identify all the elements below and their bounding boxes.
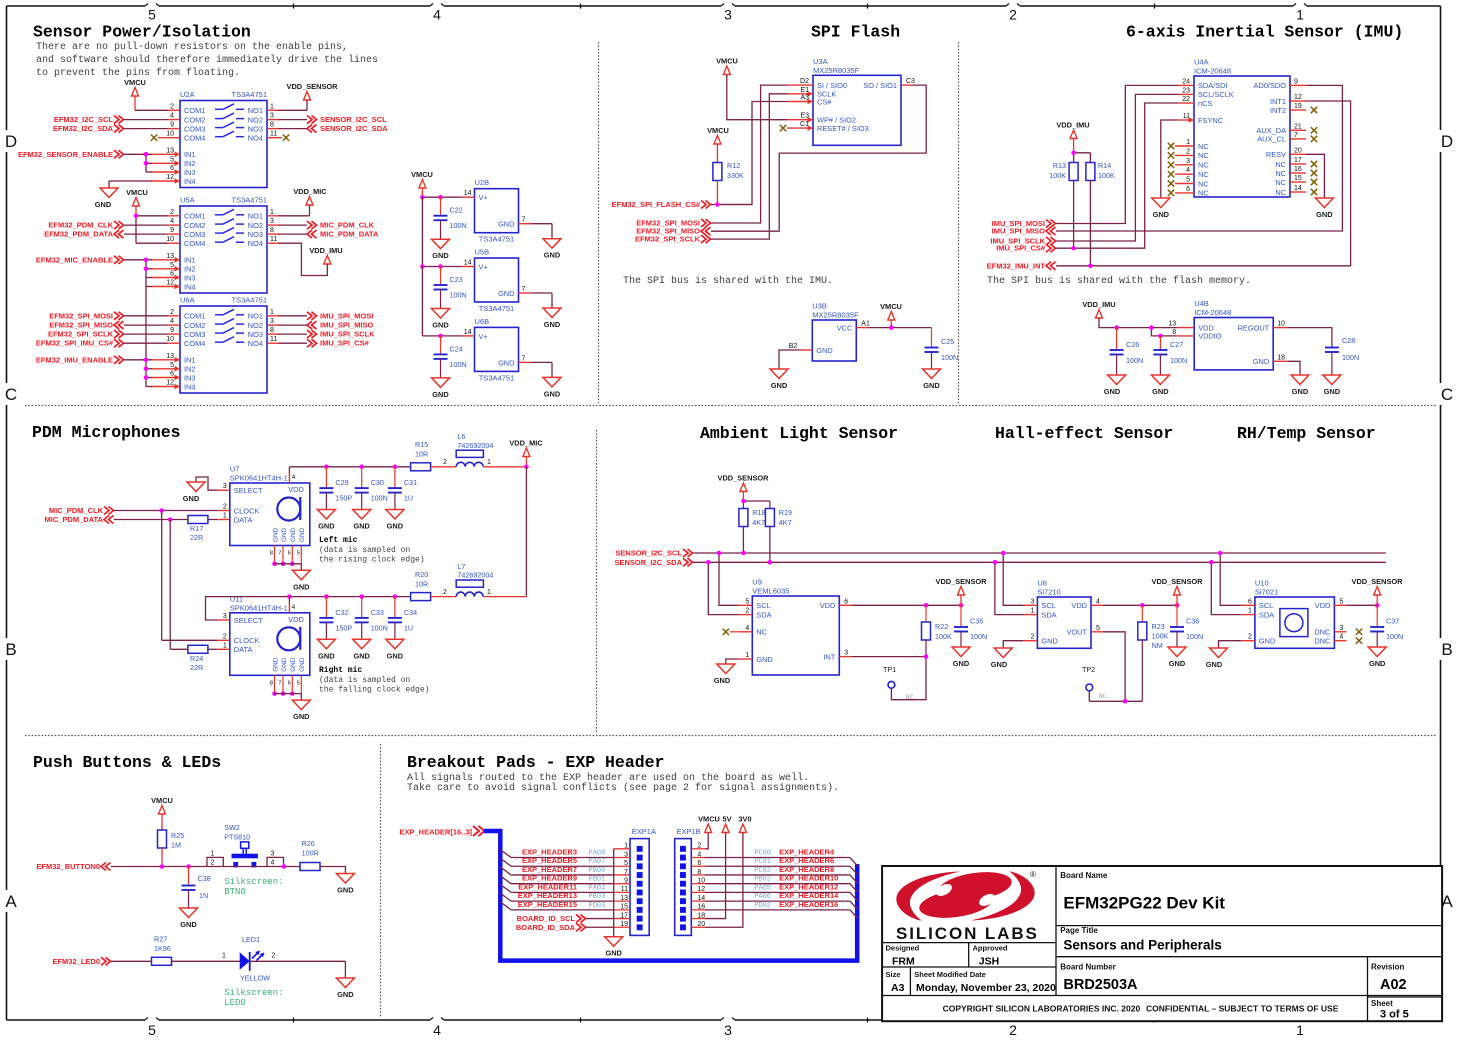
svg-text:GND: GND bbox=[544, 320, 561, 329]
ground (C23) bbox=[432, 309, 450, 330]
svg-text:VEML6035: VEML6035 bbox=[752, 587, 789, 596]
capacitor C32 150P bbox=[319, 597, 352, 640]
svg-text:GND: GND bbox=[1153, 210, 1170, 219]
wire EFM32_IMU_ENABLE to IN pins + U5A IN4 rail bbox=[124, 287, 152, 387]
svg-text:24: 24 bbox=[1182, 78, 1190, 85]
svg-text:TS3A4751: TS3A4751 bbox=[479, 304, 514, 313]
svg-text:Breakout Pads - EXP Header: Breakout Pads - EXP Header bbox=[407, 753, 664, 772]
svg-text:C27: C27 bbox=[1170, 340, 1183, 349]
junction VDD_MIC bbox=[524, 465, 529, 470]
svg-text:VMCU: VMCU bbox=[716, 57, 738, 66]
svg-text:CLOCK: CLOCK bbox=[234, 636, 260, 645]
header EXP1A bbox=[614, 827, 656, 935]
wire U6A NO3 bbox=[279, 333, 308, 335]
flash U3A MX25R8035F box bbox=[813, 57, 901, 146]
capacitor C37 100N bbox=[1370, 605, 1403, 647]
svg-text:6: 6 bbox=[288, 551, 291, 557]
svg-text:(data is sampled on: (data is sampled on bbox=[319, 676, 410, 685]
svg-text:1: 1 bbox=[487, 589, 491, 596]
svg-text:9: 9 bbox=[170, 227, 174, 234]
svg-text:MIC_PDM_DATA: MIC_PDM_DATA bbox=[320, 230, 379, 239]
wire U8 GND bbox=[1003, 641, 1023, 648]
junction C26 tap bbox=[1114, 325, 1119, 330]
ground (R26) bbox=[336, 874, 354, 895]
svg-text:the falling clock edge): the falling clock edge) bbox=[319, 686, 429, 695]
wire U8 VOUT to TP2 bbox=[1089, 632, 1142, 702]
svg-text:8: 8 bbox=[270, 680, 273, 686]
node EXP_HEADER9 bbox=[500, 874, 613, 884]
svg-text:7: 7 bbox=[1294, 132, 1298, 139]
svg-text:100N: 100N bbox=[1126, 356, 1143, 365]
svg-text:VMCU: VMCU bbox=[880, 302, 902, 311]
power VDD_IMU (R13 R14) bbox=[1056, 121, 1090, 163]
svg-text:COM1: COM1 bbox=[184, 106, 205, 115]
svg-text:2: 2 bbox=[1248, 634, 1252, 641]
svg-text:IMU_SPI_MOSI: IMU_SPI_MOSI bbox=[320, 311, 373, 320]
svg-text:IMU_SPI_CS#: IMU_SPI_CS# bbox=[996, 244, 1046, 253]
svg-text:3: 3 bbox=[270, 113, 274, 120]
wire MIC_PDM_DATA to R17 bbox=[114, 519, 187, 521]
svg-text:100N: 100N bbox=[1170, 356, 1187, 365]
title Ambient Light Sensor bbox=[700, 424, 898, 443]
svg-text:REGOUT: REGOUT bbox=[1238, 323, 1270, 332]
power VDD_SENSOR (U9) bbox=[936, 577, 988, 605]
note Silkscreen LED0 bbox=[224, 988, 283, 1008]
svg-text:VDD_SENSOR: VDD_SENSOR bbox=[1152, 577, 1204, 586]
svg-text:GND: GND bbox=[95, 200, 112, 209]
node EXP_HEADER13 bbox=[500, 891, 613, 901]
svg-text:PB02: PB02 bbox=[754, 876, 771, 884]
no-connect U2A COM4 bbox=[151, 135, 168, 141]
svg-text:14: 14 bbox=[1294, 185, 1302, 192]
wire SDA drop to U9 bbox=[708, 562, 738, 614]
svg-text:R19: R19 bbox=[779, 508, 792, 517]
svg-text:COM4: COM4 bbox=[184, 239, 205, 248]
svg-text:GND: GND bbox=[293, 712, 310, 721]
svg-text:10: 10 bbox=[166, 336, 174, 343]
svg-text:Sensors and Peripherals: Sensors and Peripherals bbox=[1063, 938, 1221, 953]
power VDD_SENSOR (U10) bbox=[1352, 577, 1404, 605]
svg-text:SENSOR_I2C_SCL: SENSOR_I2C_SCL bbox=[320, 115, 387, 124]
svg-text:NC: NC bbox=[1275, 160, 1286, 169]
svg-text:10: 10 bbox=[166, 131, 174, 138]
svg-text:C23: C23 bbox=[450, 275, 463, 284]
junction rail2 bbox=[324, 594, 329, 599]
svg-text:2: 2 bbox=[223, 633, 227, 640]
svg-text:VDD_SENSOR: VDD_SENSOR bbox=[718, 474, 770, 483]
junction FLASH_CS#/R12 bbox=[715, 202, 720, 207]
inductor L7 742692004 bbox=[456, 562, 526, 597]
silicon labs logo swoosh bbox=[896, 868, 1036, 922]
capacitor C35 100N bbox=[954, 605, 987, 647]
svg-text:GND: GND bbox=[387, 522, 404, 531]
svg-text:17: 17 bbox=[1294, 157, 1302, 164]
svg-text:2: 2 bbox=[1009, 1022, 1017, 1038]
wire R24 to U11 DATA bbox=[209, 648, 218, 650]
junction rail2 bbox=[393, 594, 398, 599]
rh/temp sensor U10 Si7021 box bbox=[1255, 579, 1335, 649]
svg-text:1: 1 bbox=[1248, 608, 1252, 615]
svg-text:18: 18 bbox=[1277, 354, 1285, 361]
svg-text:SELECT: SELECT bbox=[234, 616, 263, 625]
svg-text:GND: GND bbox=[432, 251, 449, 260]
node EXP_HEADER12 bbox=[705, 882, 857, 900]
no-connect RESET# bbox=[780, 125, 786, 131]
svg-text:3: 3 bbox=[223, 613, 227, 620]
svg-text:3: 3 bbox=[270, 218, 274, 225]
node IMU_SPI_SCLK (imu) bbox=[990, 237, 1055, 246]
svg-text:TS3A4751: TS3A4751 bbox=[232, 296, 267, 305]
flash U3A pins bbox=[787, 78, 915, 133]
svg-text:YELLOW: YELLOW bbox=[240, 974, 270, 983]
wire SENSOR_I2C_SDA bus bbox=[693, 561, 1386, 563]
svg-text:3 of 5: 3 of 5 bbox=[1380, 1009, 1409, 1021]
node SENSOR_I2C_SCL (bus) bbox=[615, 549, 692, 558]
note Right mic bbox=[319, 666, 429, 695]
silicon labs logo text bbox=[896, 924, 1039, 943]
svg-text:NO4: NO4 bbox=[248, 339, 263, 348]
ground (RESV) bbox=[1315, 198, 1333, 219]
svg-text:GND: GND bbox=[756, 655, 772, 664]
wire EFM32_MIC_ENABLE to IN pins bbox=[124, 260, 152, 287]
svg-text:PC01: PC01 bbox=[754, 858, 771, 866]
svg-text:100N: 100N bbox=[371, 494, 388, 503]
svg-text:EFM32_PDM_CLK: EFM32_PDM_CLK bbox=[48, 221, 113, 230]
ground (U4B) bbox=[1291, 375, 1309, 396]
svg-text:NM: NM bbox=[1152, 641, 1163, 650]
wire U10 GND bbox=[1219, 641, 1241, 648]
testpoint TP1 bbox=[883, 665, 917, 701]
svg-text:IN2: IN2 bbox=[184, 159, 196, 168]
power VMCU (bypass rail) bbox=[411, 170, 433, 197]
wire MIC_PDM_CLK bbox=[114, 510, 218, 512]
wire SCL drop to U8 bbox=[1003, 553, 1023, 605]
wire U7 VDD rail bbox=[289, 467, 410, 473]
no-connect U9 NC bbox=[723, 629, 739, 635]
svg-text:6: 6 bbox=[170, 165, 174, 172]
svg-text:C32: C32 bbox=[335, 608, 348, 617]
junction rail2 bbox=[359, 594, 364, 599]
svg-text:NC.: NC. bbox=[906, 694, 917, 701]
node EFM32_LED0 bbox=[52, 957, 110, 966]
inductor L6 742692004 bbox=[456, 432, 526, 467]
svg-text:11: 11 bbox=[270, 236, 277, 243]
svg-text:7: 7 bbox=[522, 286, 526, 293]
svg-text:NO3: NO3 bbox=[248, 230, 263, 239]
svg-text:Monday, November 23, 2020: Monday, November 23, 2020 bbox=[916, 982, 1056, 994]
svg-text:SDA/SDI: SDA/SDI bbox=[1198, 81, 1228, 90]
svg-text:C: C bbox=[1441, 385, 1453, 404]
svg-text:GND: GND bbox=[272, 527, 279, 542]
svg-text:PA06: PA06 bbox=[754, 893, 771, 901]
svg-text:EXP_HEADER15: EXP_HEADER15 bbox=[518, 900, 577, 909]
svg-text:RESET# / SIO3: RESET# / SIO3 bbox=[817, 124, 869, 133]
flash U3B MX25R8035F box bbox=[812, 302, 859, 362]
svg-text:U2A: U2A bbox=[180, 90, 195, 99]
svg-text:1: 1 bbox=[487, 459, 491, 466]
svg-text:NC: NC bbox=[756, 628, 767, 637]
svg-text:VDD_IMU: VDD_IMU bbox=[309, 246, 342, 255]
svg-text:DNC: DNC bbox=[1314, 628, 1331, 637]
svg-text:RESV: RESV bbox=[1266, 150, 1286, 159]
wire EFM32_PDM_CLK bbox=[124, 224, 168, 226]
svg-text:GND: GND bbox=[318, 522, 335, 531]
svg-text:C1: C1 bbox=[800, 121, 809, 128]
svg-text:IN3: IN3 bbox=[184, 373, 196, 382]
ground (C22) bbox=[432, 239, 450, 260]
node IMU_SPI_CS# (imu) bbox=[996, 244, 1055, 253]
svg-text:L6: L6 bbox=[457, 432, 465, 441]
node BOARD_ID_SDA bbox=[516, 923, 614, 932]
node EXP_HEADER5 bbox=[500, 856, 613, 866]
junction R18/SCL bbox=[741, 551, 746, 556]
capacitor C29 150P bbox=[319, 467, 352, 510]
analog switch supply U6B TS3A4751 bbox=[462, 317, 531, 383]
power VDD_IMU (U5A NO4) bbox=[279, 243, 343, 275]
junction SCL drop bbox=[717, 551, 722, 556]
svg-text:GND: GND bbox=[1253, 357, 1269, 366]
svg-text:MIC_PDM_DATA: MIC_PDM_DATA bbox=[45, 515, 104, 524]
svg-text:GND: GND bbox=[353, 522, 370, 531]
power VMCU (EXP1B pin2) bbox=[698, 815, 720, 849]
wire EFM32_SENSOR_ENABLE to IN1-IN3 bbox=[124, 154, 152, 172]
node EXP_HEADER8 bbox=[705, 865, 857, 883]
junction VDDIO drop bbox=[1149, 325, 1154, 330]
svg-text:11: 11 bbox=[270, 336, 277, 343]
node EFM32_PDM_CLK bbox=[48, 221, 123, 230]
junction C38 bbox=[186, 864, 191, 869]
svg-text:BTN0: BTN0 bbox=[224, 887, 246, 897]
svg-text:SW2: SW2 bbox=[224, 823, 240, 832]
ground (LED1) bbox=[336, 978, 354, 999]
node BOARD_ID_SCL bbox=[517, 914, 614, 923]
junction SDA drop U10 bbox=[1209, 560, 1214, 565]
svg-text:1: 1 bbox=[270, 103, 274, 110]
svg-text:6: 6 bbox=[288, 680, 291, 686]
svg-text:C30: C30 bbox=[371, 478, 384, 487]
svg-text:GND: GND bbox=[387, 651, 404, 660]
wire VMCU rail to U6B V+ bbox=[422, 267, 462, 336]
svg-text:VDD: VDD bbox=[1071, 601, 1087, 610]
ground (C31) bbox=[386, 510, 404, 531]
node EFM32_MIC_ENABLE bbox=[36, 255, 124, 264]
svg-text:SPI Flash: SPI Flash bbox=[811, 23, 900, 42]
wire U9 GND bbox=[726, 659, 739, 664]
note SPI bus shared with flash bbox=[987, 275, 1251, 287]
svg-text:INT2: INT2 bbox=[1270, 106, 1286, 115]
svg-text:100K: 100K bbox=[1152, 632, 1169, 641]
junction R13/CS# bbox=[1071, 246, 1076, 251]
svg-text:GND: GND bbox=[290, 657, 297, 672]
svg-text:13: 13 bbox=[166, 253, 174, 260]
node IMU_SPI_CS# (right) bbox=[307, 339, 370, 348]
svg-text:8: 8 bbox=[270, 551, 273, 557]
note SPI bus shared with IMU bbox=[623, 275, 833, 287]
svg-text:GND: GND bbox=[281, 657, 288, 672]
svg-text:4: 4 bbox=[170, 113, 174, 120]
wire U10 VDD to VDD_SENSOR bbox=[1346, 604, 1377, 606]
title block texts bbox=[886, 871, 1409, 1021]
svg-text:PTS810: PTS810 bbox=[224, 833, 250, 842]
svg-text:C25: C25 bbox=[941, 337, 954, 346]
svg-text:PA07: PA07 bbox=[589, 858, 606, 866]
svg-text:23: 23 bbox=[1182, 87, 1190, 94]
power VMCU (U5A) bbox=[126, 188, 148, 216]
svg-text:IN4: IN4 bbox=[184, 177, 196, 186]
svg-text:CS#: CS# bbox=[817, 97, 832, 106]
svg-text:Si7021: Si7021 bbox=[1255, 588, 1278, 597]
ground (C25) bbox=[923, 369, 941, 390]
wire NO3 to SENSOR_I2C_SDA bbox=[279, 128, 308, 130]
junction VDD_IMU bbox=[1071, 151, 1076, 156]
svg-text:9: 9 bbox=[170, 327, 174, 334]
junction U6B V+ rail bbox=[438, 334, 443, 339]
note Silkscreen BTN0 bbox=[224, 877, 283, 897]
junction U2B V+ rail bbox=[420, 195, 443, 200]
title RH/Temp Sensor bbox=[1237, 424, 1376, 443]
svg-text:E1: E1 bbox=[800, 87, 809, 94]
svg-text:ICM-20648: ICM-20648 bbox=[1194, 308, 1231, 317]
svg-text:742692004: 742692004 bbox=[457, 441, 493, 450]
svg-text:V+: V+ bbox=[479, 263, 488, 272]
svg-text:BOARD_ID_SDA: BOARD_ID_SDA bbox=[516, 923, 576, 932]
ground (C27) bbox=[1151, 375, 1169, 396]
svg-text:4K7: 4K7 bbox=[752, 518, 765, 527]
wire IMU SCLK to SCL/SCLK bbox=[1056, 94, 1178, 241]
svg-text:NC.: NC. bbox=[1099, 693, 1110, 700]
svg-text:1M: 1M bbox=[171, 841, 181, 850]
svg-text:6: 6 bbox=[844, 598, 848, 605]
svg-text:TP1: TP1 bbox=[883, 665, 896, 674]
junction R25/button bbox=[160, 864, 165, 869]
svg-text:C3: C3 bbox=[906, 78, 915, 85]
junction R22 tap bbox=[924, 603, 929, 608]
svg-text:U10: U10 bbox=[1255, 579, 1269, 588]
svg-text:NO3: NO3 bbox=[248, 124, 263, 133]
svg-text:Board Number: Board Number bbox=[1060, 963, 1116, 972]
svg-text:100K: 100K bbox=[1098, 171, 1115, 180]
light sensor U9 pins bbox=[738, 598, 851, 664]
svg-text:E3: E3 bbox=[800, 113, 809, 120]
svg-text:PA05: PA05 bbox=[754, 884, 771, 892]
node MIC_PDM_CLK (right) bbox=[307, 221, 375, 230]
svg-text:100N: 100N bbox=[450, 291, 467, 300]
junction VOUT/R23 bbox=[1123, 699, 1128, 704]
wire NO1 to VDD_SENSOR bbox=[279, 109, 308, 111]
svg-text:Board Name: Board Name bbox=[1060, 871, 1108, 880]
svg-text:BRD2503A: BRD2503A bbox=[1063, 977, 1138, 993]
node EFM32_SPI_MOSI bbox=[49, 311, 123, 320]
wire IN4 to GND bbox=[109, 181, 152, 188]
wire MISO to SO bbox=[711, 85, 926, 231]
svg-text:CONFIDENTIAL – SUBJECT TO TERM: CONFIDENTIAL – SUBJECT TO TERMS OF USE bbox=[1146, 1004, 1339, 1014]
power VMCU (R25) bbox=[151, 796, 173, 830]
svg-text:A1: A1 bbox=[861, 321, 870, 328]
svg-text:VMCU: VMCU bbox=[698, 815, 720, 824]
svg-text:EFM32_I2C_SCL: EFM32_I2C_SCL bbox=[54, 115, 114, 124]
wire EFM32_SPI_MOSI bbox=[124, 315, 168, 317]
svg-text:C34: C34 bbox=[404, 608, 417, 617]
node EFM32_SPI_SCLK bbox=[48, 330, 124, 339]
wire REGOUT to C28 bbox=[1287, 328, 1332, 348]
svg-text:VDD: VDD bbox=[288, 485, 304, 494]
svg-text:1: 1 bbox=[745, 652, 749, 659]
wire R26 to GND bbox=[320, 867, 345, 874]
svg-text:EFM32_BUTTON0: EFM32_BUTTON0 bbox=[36, 862, 100, 871]
svg-text:SDA: SDA bbox=[1041, 610, 1056, 619]
wire EFM32_SPI_MISO bbox=[124, 324, 168, 326]
svg-text:SPK0641HT4H-1: SPK0641HT4H-1 bbox=[230, 474, 288, 483]
svg-text:MIC_PDM_CLK: MIC_PDM_CLK bbox=[320, 221, 375, 230]
wire EXP1A pin1 to GND bbox=[613, 849, 615, 937]
wire U11 SELECT to VDD rail2 bbox=[206, 597, 290, 620]
svg-text:9: 9 bbox=[170, 122, 174, 129]
ground (U7 SELECT) bbox=[183, 482, 205, 503]
svg-text:9: 9 bbox=[1294, 78, 1298, 85]
svg-text:5: 5 bbox=[1096, 625, 1100, 632]
svg-text:Sheet Modified Date: Sheet Modified Date bbox=[914, 970, 986, 979]
svg-text:5: 5 bbox=[170, 362, 174, 369]
svg-text:COM1: COM1 bbox=[184, 312, 205, 321]
svg-text:4: 4 bbox=[292, 474, 296, 481]
junction U11 VDD bbox=[287, 594, 292, 599]
svg-text:1U: 1U bbox=[404, 494, 413, 503]
svg-text:1: 1 bbox=[270, 209, 274, 216]
node EXP_HEADER[16..3] bbox=[399, 826, 484, 837]
svg-text:PA08: PA08 bbox=[589, 850, 606, 858]
svg-text:6: 6 bbox=[170, 271, 174, 278]
svg-text:7: 7 bbox=[278, 551, 281, 557]
svg-text:NO2: NO2 bbox=[248, 221, 263, 230]
svg-text:100N: 100N bbox=[941, 353, 958, 362]
svg-text:and software should therefore: and software should therefore immediatel… bbox=[36, 54, 378, 66]
svg-text:R12: R12 bbox=[727, 161, 740, 170]
svg-text:NO1: NO1 bbox=[248, 312, 263, 321]
svg-text:RH/Temp Sensor: RH/Temp Sensor bbox=[1237, 424, 1376, 443]
node EXP_HEADER6 bbox=[705, 856, 857, 874]
ground (EXP1A pin1) bbox=[605, 937, 623, 958]
svg-text:5: 5 bbox=[297, 680, 300, 686]
svg-text:20: 20 bbox=[1294, 147, 1302, 154]
svg-text:COM2: COM2 bbox=[184, 115, 205, 124]
svg-text:2: 2 bbox=[443, 589, 447, 596]
wire EFM32_SPI_SCLK bbox=[124, 333, 168, 335]
ground (C35) bbox=[952, 647, 970, 668]
svg-text:VMCU: VMCU bbox=[124, 78, 146, 87]
svg-text:PB01: PB01 bbox=[589, 876, 606, 884]
imu U4B ICM-20648 box bbox=[1194, 299, 1273, 370]
svg-text:3: 3 bbox=[844, 650, 848, 657]
svg-text:2: 2 bbox=[223, 504, 227, 511]
svg-text:1: 1 bbox=[1296, 1022, 1304, 1038]
svg-text:NC: NC bbox=[1275, 178, 1286, 187]
svg-text:4: 4 bbox=[1186, 167, 1190, 174]
node EFM32_IMU_INT bbox=[987, 261, 1056, 270]
svg-text:U8: U8 bbox=[1037, 579, 1047, 588]
power VDD_SENSOR (R18 R19) bbox=[718, 474, 770, 509]
svg-text:V+: V+ bbox=[479, 193, 488, 202]
svg-text:GND: GND bbox=[183, 494, 200, 503]
resistor R13 100K bbox=[1049, 161, 1078, 248]
svg-text:100N: 100N bbox=[970, 632, 987, 641]
svg-text:TS3A4751: TS3A4751 bbox=[232, 196, 267, 205]
svg-text:GND: GND bbox=[1104, 387, 1121, 396]
rh/temp sensor U10 pins bbox=[1241, 598, 1347, 645]
svg-text:NC: NC bbox=[1198, 151, 1209, 160]
svg-text:MX25R8035F: MX25R8035F bbox=[812, 311, 859, 320]
svg-text:Take care to avoid signal conf: Take care to avoid signal conflicts (see… bbox=[407, 782, 839, 794]
svg-text:10R: 10R bbox=[415, 579, 428, 588]
